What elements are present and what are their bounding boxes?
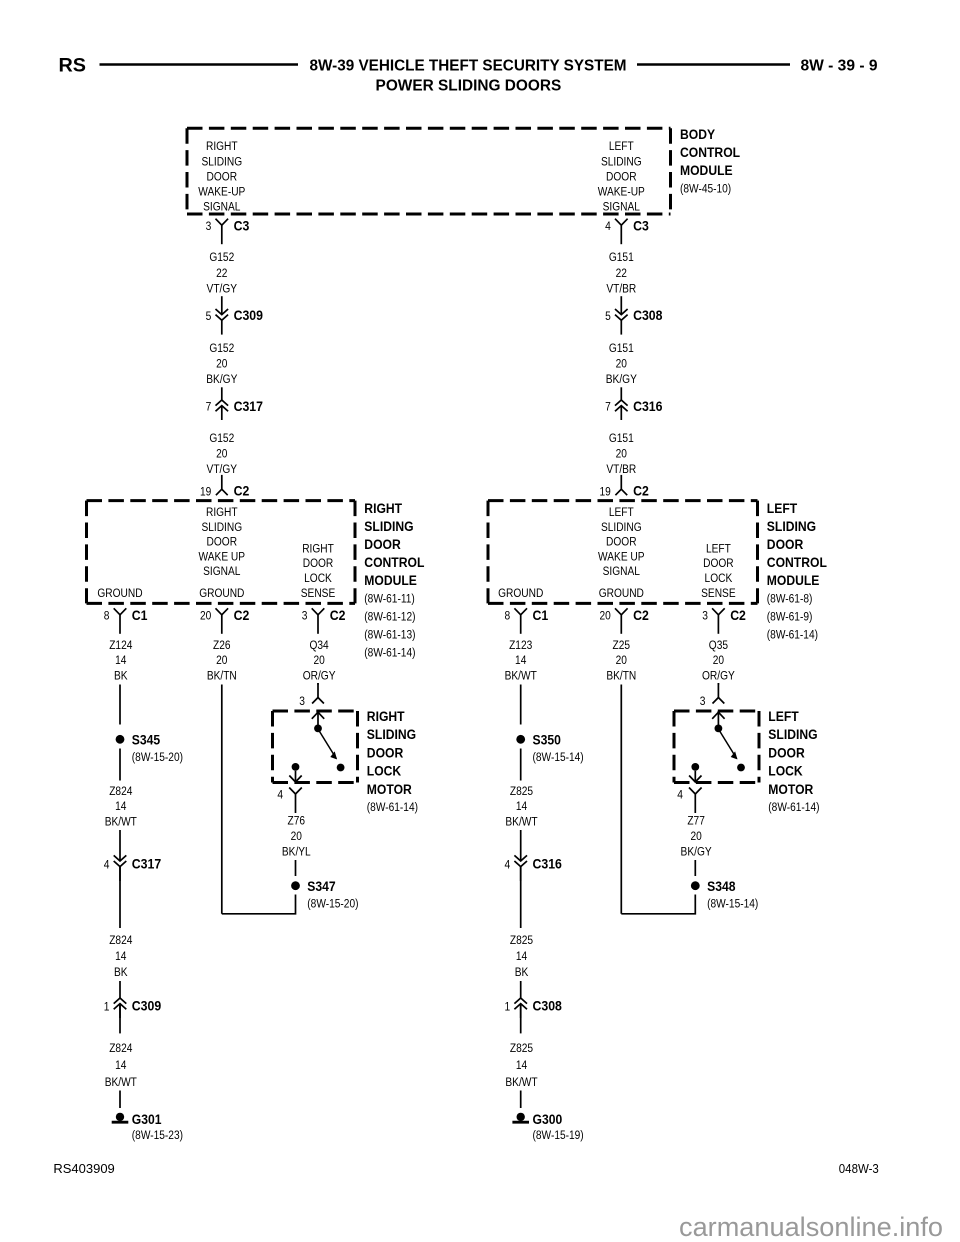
svg-text:(8W-61-14): (8W-61-14) <box>364 645 415 659</box>
svg-text:WAKE UP: WAKE UP <box>598 549 645 563</box>
svg-text:SLIDING: SLIDING <box>367 727 416 742</box>
svg-text:20: 20 <box>216 357 227 371</box>
svg-text:4: 4 <box>505 857 511 871</box>
right sliding door lock motor box <box>273 710 358 713</box>
svg-text:Z124: Z124 <box>109 638 132 652</box>
switch contact (top) <box>715 725 723 733</box>
svg-text:14: 14 <box>115 653 126 667</box>
svg-text:048W-3: 048W-3 <box>839 1162 879 1176</box>
svg-text:Z825: Z825 <box>510 1041 533 1055</box>
connector C3 pin 3 (left top chain) <box>216 219 229 226</box>
left sliding door lock motor box <box>674 710 759 713</box>
svg-text:MODULE: MODULE <box>767 573 820 588</box>
svg-text:C317: C317 <box>132 857 161 872</box>
svg-text:DOOR: DOOR <box>303 556 334 570</box>
svg-text:WAKE-UP: WAKE-UP <box>598 185 645 199</box>
svg-text:DOOR: DOOR <box>703 556 734 570</box>
switch contact (output) <box>292 763 300 771</box>
connector C2 pin 3 (right) <box>312 608 325 615</box>
wire from C2 pin 20 down and over to S347 <box>221 685 223 914</box>
svg-text:Z824: Z824 <box>109 933 132 947</box>
connector C3 pin 4 (right top chain) <box>615 219 628 226</box>
svg-text:G151: G151 <box>609 431 634 445</box>
svg-text:(8W-45-10): (8W-45-10) <box>680 182 731 196</box>
svg-text:7: 7 <box>206 400 212 414</box>
svg-text:G152: G152 <box>209 341 234 355</box>
svg-text:Z824: Z824 <box>109 784 132 798</box>
svg-text:G300: G300 <box>533 1112 563 1127</box>
svg-text:POWER SLIDING DOORS: POWER SLIDING DOORS <box>376 78 562 95</box>
svg-text:C1: C1 <box>132 608 148 623</box>
svg-text:C316: C316 <box>633 399 663 414</box>
svg-text:CONTROL: CONTROL <box>364 555 424 570</box>
svg-text:(8W-61-8): (8W-61-8) <box>767 592 813 606</box>
svg-text:BK/GY: BK/GY <box>606 372 637 386</box>
svg-text:14: 14 <box>516 1058 527 1072</box>
svg-text:1: 1 <box>104 999 110 1013</box>
switch arm with arrowhead <box>318 729 336 759</box>
svg-text:OR/GY: OR/GY <box>702 668 735 682</box>
connector C2 pin 19 (right) <box>620 475 622 489</box>
svg-text:Z123: Z123 <box>509 638 532 652</box>
wire to splice S350 <box>520 685 522 725</box>
wire Z825 14 BK/WT <box>520 749 522 781</box>
connector C2 pin 19 (left) <box>221 475 223 489</box>
svg-text:RIGHT: RIGHT <box>206 505 238 519</box>
svg-text:20: 20 <box>616 357 627 371</box>
svg-text:G152: G152 <box>209 431 234 445</box>
switch: entry arrow <box>317 711 319 728</box>
wire Z824 14 BK/WT <box>119 749 121 781</box>
svg-text:DOOR: DOOR <box>367 745 404 760</box>
svg-text:(8W-15-19): (8W-15-19) <box>533 1128 584 1142</box>
svg-text:DOOR: DOOR <box>364 537 401 552</box>
svg-text:Z77: Z77 <box>687 814 705 828</box>
svg-text:Q35: Q35 <box>709 638 728 652</box>
svg-text:SENSE: SENSE <box>701 586 736 600</box>
svg-text:SLIDING: SLIDING <box>601 154 642 168</box>
svg-text:OR/GY: OR/GY <box>303 668 336 682</box>
svg-text:BK/WT: BK/WT <box>105 814 138 828</box>
connector C317 pin 7 <box>216 400 229 406</box>
connector C308 pin 5 <box>615 309 628 315</box>
svg-text:22: 22 <box>616 266 627 280</box>
connector C308 pin 1 <box>514 998 527 1004</box>
connector C2 pin 20 (left) <box>615 608 628 615</box>
svg-text:Q34: Q34 <box>310 638 329 652</box>
svg-text:RIGHT: RIGHT <box>302 541 334 555</box>
svg-text:LEFT: LEFT <box>609 505 634 519</box>
wire Z824 14 BK <box>119 867 121 928</box>
svg-text:8: 8 <box>505 609 511 623</box>
svg-text:MOTOR: MOTOR <box>768 782 813 797</box>
svg-text:14: 14 <box>516 949 527 963</box>
svg-text:CONTROL: CONTROL <box>680 145 740 160</box>
svg-text:LEFT: LEFT <box>767 501 798 516</box>
svg-text:(8W-61-11): (8W-61-11) <box>364 592 415 606</box>
connector C309 pin 5 <box>216 309 229 315</box>
svg-text:VT/BR: VT/BR <box>606 281 636 295</box>
svg-text:LOCK: LOCK <box>705 571 733 585</box>
svg-text:Z25: Z25 <box>613 638 631 652</box>
wire from C2 pin 20 down and over to S348 <box>620 685 622 914</box>
svg-text:22: 22 <box>216 266 227 280</box>
svg-text:20: 20 <box>616 447 627 461</box>
header rule right <box>637 63 790 66</box>
svg-text:3: 3 <box>700 694 706 708</box>
right sliding door control module box <box>87 499 356 502</box>
svg-text:BK/TN: BK/TN <box>606 668 636 682</box>
svg-text:S350: S350 <box>533 733 561 748</box>
svg-text:C2: C2 <box>234 484 250 499</box>
switch: exit arrow <box>295 771 297 782</box>
svg-text:4: 4 <box>104 857 110 871</box>
switch contact (top) <box>314 725 322 733</box>
svg-text:Z825: Z825 <box>510 784 533 798</box>
svg-text:BK/WT: BK/WT <box>505 668 538 682</box>
svg-text:BK: BK <box>515 965 529 979</box>
svg-text:C308: C308 <box>633 308 663 323</box>
svg-text:3: 3 <box>299 694 305 708</box>
svg-text:RS: RS <box>59 56 87 77</box>
wire Q to left lock motor pin 3 <box>717 683 719 685</box>
svg-text:8: 8 <box>104 609 110 623</box>
svg-text:SLIDING: SLIDING <box>201 520 242 534</box>
svg-text:DOOR: DOOR <box>767 537 804 552</box>
svg-text:SLIDING: SLIDING <box>767 519 816 534</box>
wire Q to right lock motor pin 3 <box>317 683 319 685</box>
svg-text:DOOR: DOOR <box>768 745 805 760</box>
wire Z825 14 BK/WT <box>520 1004 522 1034</box>
svg-text:S347: S347 <box>307 879 335 894</box>
svg-text:(8W-15-14): (8W-15-14) <box>533 750 584 764</box>
svg-text:3: 3 <box>302 609 308 623</box>
svg-text:(8W-61-14): (8W-61-14) <box>768 800 819 814</box>
svg-text:14: 14 <box>115 1058 126 1072</box>
connector C316 pin 7 <box>615 400 628 406</box>
svg-text:DOOR: DOOR <box>606 169 637 183</box>
svg-text:LEFT: LEFT <box>609 139 634 153</box>
svg-text:DOOR: DOOR <box>207 535 238 549</box>
svg-text:C2: C2 <box>730 608 746 623</box>
svg-text:4: 4 <box>277 788 283 802</box>
svg-text:BK/WT: BK/WT <box>505 1075 538 1089</box>
svg-text:(8W-15-14): (8W-15-14) <box>707 896 758 910</box>
svg-text:G301: G301 <box>132 1112 162 1127</box>
svg-text:14: 14 <box>516 799 527 813</box>
switch: exit arrow <box>694 771 696 782</box>
switch contact (travel end) <box>337 764 345 772</box>
svg-text:20: 20 <box>313 653 324 667</box>
svg-text:Z824: Z824 <box>109 1041 132 1055</box>
svg-text:C3: C3 <box>633 219 649 234</box>
svg-text:(8W-61-13): (8W-61-13) <box>364 628 415 642</box>
svg-text:LOCK: LOCK <box>304 571 332 585</box>
svg-text:4: 4 <box>605 219 611 233</box>
svg-text:C2: C2 <box>330 608 346 623</box>
svg-text:BK/WT: BK/WT <box>105 1075 138 1089</box>
svg-text:(8W-15-23): (8W-15-23) <box>132 1128 183 1142</box>
svg-text:LOCK: LOCK <box>768 764 803 779</box>
svg-text:Z825: Z825 <box>510 933 533 947</box>
svg-text:RIGHT: RIGHT <box>367 709 405 724</box>
svg-text:WAKE-UP: WAKE-UP <box>198 185 245 199</box>
connector C1 pin 8 (right) <box>114 608 127 615</box>
svg-text:SLIDING: SLIDING <box>601 520 642 534</box>
svg-text:C308: C308 <box>533 999 563 1014</box>
svg-text:GROUND: GROUND <box>498 586 543 600</box>
connector C317 pin 4 <box>114 855 127 861</box>
svg-text:20: 20 <box>713 653 724 667</box>
connector pin 4 (right lock motor) <box>289 788 302 795</box>
svg-text:20: 20 <box>616 653 627 667</box>
svg-text:7: 7 <box>605 400 611 414</box>
svg-text:SLIDING: SLIDING <box>364 519 413 534</box>
svg-text:C309: C309 <box>234 308 263 323</box>
svg-text:20: 20 <box>200 609 211 623</box>
svg-text:C2: C2 <box>234 608 250 623</box>
svg-text:20: 20 <box>600 609 611 623</box>
svg-text:20: 20 <box>690 829 701 843</box>
svg-text:5: 5 <box>206 309 212 323</box>
svg-text:SLIDING: SLIDING <box>768 727 817 742</box>
svg-text:GROUND: GROUND <box>199 586 244 600</box>
svg-text:SIGNAL: SIGNAL <box>603 564 640 578</box>
svg-text:BODY: BODY <box>680 127 715 142</box>
svg-text:BK/YL: BK/YL <box>282 844 311 858</box>
wire Z825 14 BK <box>520 867 522 928</box>
svg-text:(8W-61-9): (8W-61-9) <box>767 610 813 624</box>
svg-text:5: 5 <box>605 309 611 323</box>
svg-text:LEFT: LEFT <box>706 541 731 555</box>
svg-text:(8W-61-14): (8W-61-14) <box>767 628 818 642</box>
svg-text:DOOR: DOOR <box>606 535 637 549</box>
wire Z824 14 BK/WT <box>119 1004 121 1034</box>
splice S347 <box>291 881 300 890</box>
splice S348 <box>691 881 700 890</box>
ground G301 <box>116 1113 124 1121</box>
svg-text:19: 19 <box>200 484 211 498</box>
svg-text:4: 4 <box>677 788 683 802</box>
svg-text:LOCK: LOCK <box>367 764 402 779</box>
svg-text:G151: G151 <box>609 341 634 355</box>
wire to splice S345 <box>119 685 121 725</box>
svg-text:SENSE: SENSE <box>301 586 336 600</box>
svg-text:MODULE: MODULE <box>680 163 733 178</box>
svg-text:8W-39 VEHICLE THEFT SECURITY S: 8W-39 VEHICLE THEFT SECURITY SYSTEM <box>310 58 627 75</box>
svg-text:MOTOR: MOTOR <box>367 782 412 797</box>
svg-text:GROUND: GROUND <box>97 586 142 600</box>
connector C2 pin 20 (right) <box>216 608 229 615</box>
header rule left <box>100 63 299 66</box>
svg-text:BK: BK <box>114 965 128 979</box>
svg-text:BK/GY: BK/GY <box>681 844 712 858</box>
svg-text:C2: C2 <box>633 484 649 499</box>
svg-text:(8W-61-14): (8W-61-14) <box>367 800 418 814</box>
svg-text:BK/TN: BK/TN <box>207 668 237 682</box>
left sliding door control module box <box>488 499 758 502</box>
svg-text:3: 3 <box>206 219 212 233</box>
svg-text:SIGNAL: SIGNAL <box>603 200 640 214</box>
ground G300 <box>517 1113 525 1121</box>
svg-text:14: 14 <box>515 653 526 667</box>
splice S345 <box>116 735 125 744</box>
connector C316 pin 4 <box>514 855 527 861</box>
svg-text:19: 19 <box>600 484 611 498</box>
svg-text:S345: S345 <box>132 733 161 748</box>
connector C309 pin 1 <box>114 998 127 1004</box>
svg-text:G151: G151 <box>609 250 634 264</box>
splice S350 <box>516 735 525 744</box>
svg-text:S348: S348 <box>707 879 736 894</box>
switch arm with arrowhead <box>718 729 736 759</box>
svg-text:C309: C309 <box>132 999 161 1014</box>
svg-text:Z26: Z26 <box>213 638 231 652</box>
svg-text:C1: C1 <box>533 608 549 623</box>
svg-text:20: 20 <box>216 653 227 667</box>
svg-text:DOOR: DOOR <box>207 169 238 183</box>
svg-text:VT/GY: VT/GY <box>207 281 238 295</box>
svg-text:BK/GY: BK/GY <box>206 372 237 386</box>
svg-text:RIGHT: RIGHT <box>206 139 238 153</box>
svg-text:WAKE UP: WAKE UP <box>199 549 246 563</box>
switch: entry arrow <box>717 711 719 728</box>
svg-text:Z76: Z76 <box>288 814 306 828</box>
svg-text:RS403909: RS403909 <box>53 1161 114 1176</box>
svg-text:SIGNAL: SIGNAL <box>203 200 240 214</box>
svg-text:14: 14 <box>115 949 126 963</box>
svg-text:(8W-61-12): (8W-61-12) <box>364 610 415 624</box>
svg-text:SLIDING: SLIDING <box>201 154 242 168</box>
svg-text:BK: BK <box>114 668 128 682</box>
svg-text:GROUND: GROUND <box>599 586 644 600</box>
svg-text:SIGNAL: SIGNAL <box>203 564 240 578</box>
svg-text:VT/GY: VT/GY <box>207 462 238 476</box>
svg-text:carmanualsonline.info: carmanualsonline.info <box>679 1212 943 1242</box>
connector C1 pin 8 (left) <box>514 608 527 615</box>
switch contact (output) <box>691 763 699 771</box>
switch contact (travel end) <box>737 764 745 772</box>
svg-text:20: 20 <box>216 447 227 461</box>
body control module box <box>187 127 671 130</box>
svg-text:1: 1 <box>505 999 511 1013</box>
svg-text:C317: C317 <box>234 399 263 414</box>
svg-text:G152: G152 <box>209 250 234 264</box>
connector pin 4 (left lock motor) <box>689 788 702 795</box>
svg-text:20: 20 <box>291 829 302 843</box>
svg-text:C316: C316 <box>533 857 563 872</box>
connector C2 pin 3 (left) <box>712 608 725 615</box>
svg-text:(8W-15-20): (8W-15-20) <box>132 750 183 764</box>
svg-text:VT/BR: VT/BR <box>606 462 636 476</box>
svg-text:C2: C2 <box>633 608 649 623</box>
svg-text:14: 14 <box>115 799 126 813</box>
svg-text:CONTROL: CONTROL <box>767 555 827 570</box>
svg-text:(8W-15-20): (8W-15-20) <box>307 896 358 910</box>
svg-text:MODULE: MODULE <box>364 573 417 588</box>
svg-text:C3: C3 <box>234 219 250 234</box>
svg-text:3: 3 <box>702 609 708 623</box>
svg-text:BK/WT: BK/WT <box>505 814 538 828</box>
svg-text:8W - 39 - 9: 8W - 39 - 9 <box>801 58 878 75</box>
svg-text:LEFT: LEFT <box>768 709 799 724</box>
svg-text:RIGHT: RIGHT <box>364 501 402 516</box>
